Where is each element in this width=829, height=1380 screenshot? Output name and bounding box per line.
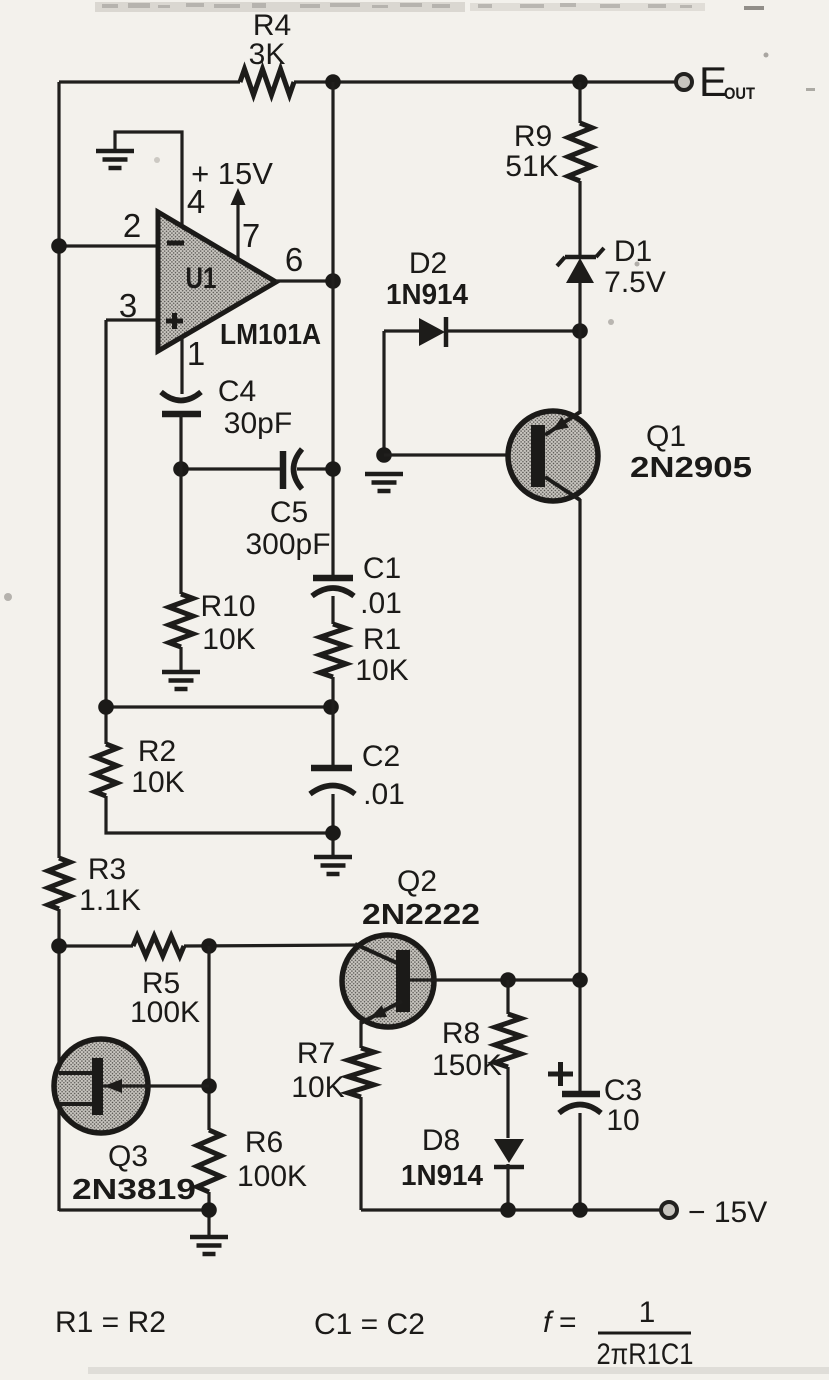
wire D1 to Q1 emitter — [578, 283, 581, 414]
svg-text:7: 7 — [242, 217, 260, 254]
capacitor C1 — [313, 575, 353, 582]
svg-text:R8: R8 — [442, 1017, 480, 1050]
node C5-row right junction — [325, 461, 341, 477]
svg-text:− 15V: − 15V — [688, 1196, 767, 1229]
node junction top-mid — [325, 74, 341, 90]
scan noise bottom band — [88, 1367, 829, 1374]
svg-text:10: 10 — [606, 1104, 639, 1137]
node R3/R5 junction — [51, 938, 67, 954]
svg-text:C1: C1 — [363, 552, 401, 585]
resistor R1 — [320, 624, 346, 677]
svg-text:2: 2 — [123, 207, 141, 244]
svg-text:10K: 10K — [291, 1071, 344, 1104]
svg-text:Q1: Q1 — [646, 420, 686, 453]
wire pin3 branch down to R2 — [104, 320, 107, 744]
Q2 base bar — [396, 950, 410, 1012]
Q3 gate lead with arrow — [103, 1084, 209, 1087]
wire R7 to bottom rail — [359, 1097, 362, 1210]
wire Q1 base — [384, 453, 531, 456]
wire R8 branch top — [506, 980, 509, 1014]
wire C2 to ground node — [331, 794, 334, 856]
svg-text:R1 = R2: R1 = R2 — [55, 1306, 166, 1339]
svg-text:3: 3 — [119, 287, 137, 324]
wire ground stub to op-amp pin4: vertical at ground — [115, 132, 182, 228]
svg-text:R1: R1 — [363, 623, 401, 656]
resistor R3 — [48, 858, 70, 909]
resistor R10 — [169, 594, 193, 647]
resistor R8 — [495, 1014, 521, 1067]
C3 plus polarity mark — [548, 1072, 573, 1077]
Q3 drain lead — [59, 1071, 92, 1075]
wire R1 to C2 — [331, 677, 334, 766]
wire op-amp pin3 input — [106, 318, 160, 321]
svg-text:+ 15V: + 15V — [191, 156, 273, 191]
node Q2 base / right-rail junction — [572, 972, 588, 988]
svg-text:E: E — [699, 58, 727, 105]
wire R5 row — [59, 944, 133, 947]
svg-text:Q3: Q3 — [108, 1140, 148, 1173]
svg-text:10K: 10K — [131, 766, 184, 799]
svg-text:2N2222: 2N2222 — [362, 899, 480, 931]
wire op-amp pin1 down — [180, 337, 183, 394]
svg-text:R2: R2 — [138, 735, 176, 768]
capacitor C5 — [280, 451, 287, 489]
diode D2 — [419, 318, 445, 346]
svg-text:OUT: OUT — [724, 84, 756, 103]
node junction right (R1 bottom) — [323, 699, 339, 715]
svg-text:D1: D1 — [614, 235, 652, 268]
wire below R2 to corner — [106, 796, 333, 833]
svg-text:C5: C5 — [270, 496, 308, 529]
wire left rail upper — [57, 82, 60, 858]
wire D8 to bottom rail — [506, 1164, 509, 1211]
node R8 top junction — [500, 972, 516, 988]
wire C4 to R10 — [179, 414, 182, 594]
wire Q2 base to R8 node — [410, 978, 580, 981]
ground (below R10) — [162, 670, 200, 675]
zener diode D1 — [565, 255, 596, 260]
Q1 collector lead — [545, 477, 580, 500]
Q1 base bar — [531, 425, 545, 487]
svg-text:R3: R3 — [88, 853, 126, 886]
svg-text:D2: D2 — [409, 247, 447, 280]
resistor R4 — [240, 69, 294, 95]
transistor Q1 body — [508, 411, 598, 501]
svg-text:R6: R6 — [245, 1126, 283, 1159]
terminal -15V — [661, 1202, 677, 1218]
svg-text:.01: .01 — [360, 587, 402, 620]
Q2 collector lead — [355, 944, 397, 963]
svg-text:C3: C3 — [604, 1074, 642, 1107]
Q2 emitter lead with arrow — [361, 1001, 402, 1023]
wire R9 to D1 — [578, 181, 581, 258]
svg-text:2N3819: 2N3819 — [72, 1174, 196, 1206]
svg-text:100K: 100K — [237, 1160, 307, 1193]
svg-text:10K: 10K — [355, 654, 408, 687]
wire Q2 emitter down to R7 — [359, 1021, 362, 1048]
svg-text:R7: R7 — [297, 1037, 335, 1070]
wire right rail Q1 collector down — [578, 499, 581, 1092]
svg-text:=: = — [559, 1306, 577, 1339]
svg-text:30pF: 30pF — [224, 407, 292, 440]
svg-text:R9: R9 — [514, 120, 552, 153]
svg-text:2N2905: 2N2905 — [630, 452, 752, 484]
wire mid rail from top to C1 — [331, 82, 334, 575]
node junction left (pin3 branch) — [98, 699, 114, 715]
op-amp U1 body — [158, 212, 276, 351]
svg-text:D8: D8 — [422, 1124, 460, 1157]
wire D2 row left — [384, 329, 419, 332]
wire op-amp pin6 output — [276, 279, 333, 282]
ground (Q1 base leg) — [365, 472, 403, 477]
Q1 emitter lead with arrow — [545, 412, 580, 435]
svg-text:C4: C4 — [218, 375, 256, 408]
transistor Q2 body — [342, 935, 434, 1027]
svg-text:R10: R10 — [200, 590, 255, 623]
node pin6 junction on mid rail — [325, 273, 341, 289]
op-amp plus input mark — [166, 319, 183, 324]
svg-text:U1: U1 — [186, 262, 217, 295]
wire bottom rail (-15V) — [361, 1208, 661, 1211]
svg-text:51K: 51K — [505, 150, 558, 183]
wire D2 left leg down — [382, 331, 385, 456]
svg-text:7.5V: 7.5V — [604, 266, 666, 299]
svg-text:Q2: Q2 — [397, 865, 437, 898]
svg-text:C2: C2 — [362, 740, 400, 773]
transistor Q3 body (JFET) — [54, 1039, 148, 1133]
wire R6 to bottom node — [207, 1192, 210, 1236]
svg-text:1: 1 — [639, 1296, 656, 1329]
svg-text:150K: 150K — [432, 1049, 502, 1082]
power +15V arrow (pin 7) — [236, 203, 239, 258]
scan specks — [806, 88, 815, 91]
capacitor C4 — [161, 392, 201, 401]
node C5-row left junction — [173, 461, 189, 477]
wire R8 to D8 — [506, 1067, 509, 1138]
svg-text:1.1K: 1.1K — [79, 884, 141, 917]
node R5/R6 junction — [201, 938, 217, 954]
node D2/D1 junction — [572, 323, 588, 339]
wire C5 row — [181, 467, 281, 470]
svg-text:C1 = C2: C1 = C2 — [314, 1308, 425, 1341]
resistor R2 — [95, 744, 117, 796]
wire left rail lower — [57, 909, 60, 1211]
node C2 ground junction — [325, 825, 341, 841]
svg-text:1: 1 — [187, 335, 205, 372]
wire top rail left segment (Eout node) — [59, 80, 240, 83]
capacitor C2 — [311, 765, 352, 772]
node pin2 junction on left rail — [51, 238, 67, 254]
resistor R5 — [133, 936, 184, 956]
Q3 channel bar — [92, 1058, 103, 1115]
svg-text:1N914: 1N914 — [401, 1160, 483, 1192]
svg-text:1N914: 1N914 — [386, 279, 468, 311]
svg-text:10K: 10K — [202, 623, 255, 656]
Q3 source lead — [59, 1102, 92, 1106]
node junction top-right — [572, 74, 588, 90]
svg-text:2πR1C1: 2πR1C1 — [597, 1338, 694, 1371]
wire right rail top (Eout to R9) — [578, 82, 581, 123]
scan noise top band — [95, 2, 465, 12]
resistor R6 — [197, 1130, 221, 1192]
node Q3 gate junction — [201, 1078, 217, 1094]
wire node row R1/R2 junction — [106, 705, 333, 708]
resistor R9 — [568, 123, 592, 181]
capacitor C3 (electrolytic) — [562, 1091, 600, 1098]
wire C3 to bottom rail — [578, 1113, 581, 1211]
node Q1 base junction — [376, 447, 392, 463]
wire R10 to ground — [179, 647, 182, 671]
node D8 bottom junction — [500, 1202, 516, 1218]
wire C1 to R1 — [331, 596, 334, 624]
node C3 bottom junction — [572, 1202, 588, 1218]
ground (below R6) — [190, 1235, 228, 1240]
svg-text:3K: 3K — [249, 38, 286, 71]
wire op-amp pin2 input — [59, 244, 160, 247]
resistor R7 — [348, 1048, 374, 1097]
op-amp minus input mark — [167, 241, 184, 246]
terminal E_OUT — [676, 74, 692, 90]
wire R5 junction down to Q3 gate — [207, 946, 210, 1130]
svg-text:100K: 100K — [130, 996, 200, 1029]
node R6 ground junction — [201, 1202, 217, 1218]
svg-text:LM101A: LM101A — [220, 319, 321, 351]
ground (op-amp pin 4) — [96, 149, 134, 154]
ground (below C2) — [314, 855, 352, 860]
wire D2 row right — [446, 329, 580, 332]
diode D8 — [494, 1139, 524, 1163]
svg-text:6: 6 — [285, 241, 303, 278]
svg-text:300pF: 300pF — [245, 528, 330, 561]
wire bottom-left to R6 ground node — [59, 1208, 209, 1211]
svg-text:.01: .01 — [363, 778, 405, 811]
wire top rail right segment — [294, 80, 676, 83]
